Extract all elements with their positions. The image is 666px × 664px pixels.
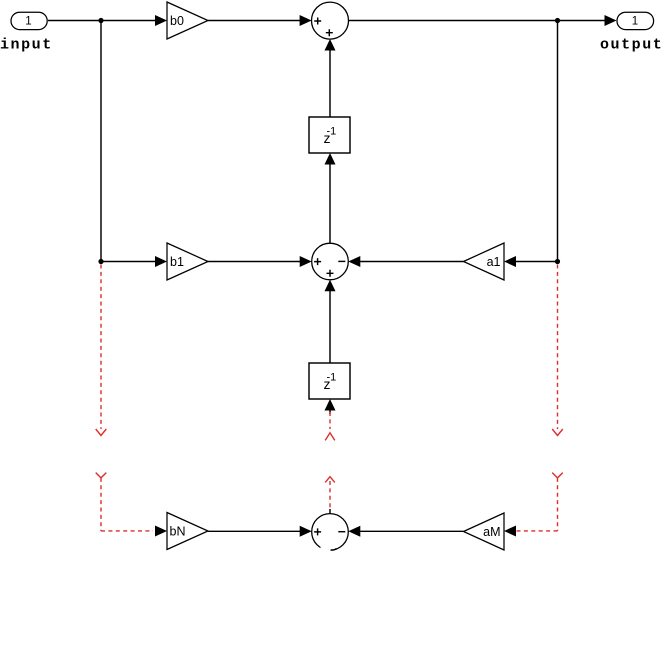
svg-text:input: input [0,37,53,54]
svg-text:1: 1 [25,15,31,27]
svg-text:b0: b0 [170,14,184,28]
svg-text:1: 1 [632,15,638,27]
svg-text:bN: bN [170,525,186,539]
svg-text:-1: -1 [327,126,337,138]
svg-text:b1: b1 [170,255,184,269]
svg-text:aM: aM [483,525,500,539]
svg-text:-1: -1 [327,372,337,384]
svg-text:a1: a1 [487,255,501,269]
svg-text:output: output [600,37,663,54]
